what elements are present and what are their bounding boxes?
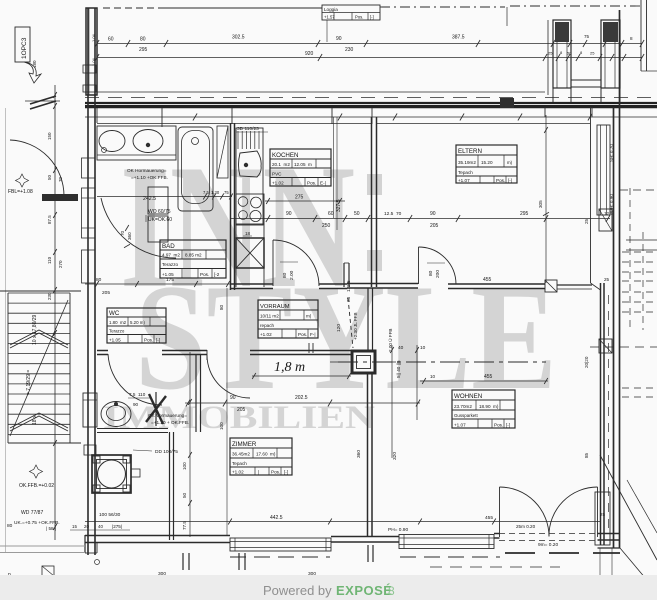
left building wall inner [94, 8, 96, 555]
niche right pier hatch [603, 22, 618, 42]
svg-text:85: 85 [584, 452, 589, 458]
svg-text:OK Vormauerung=: OK Vormauerung= [148, 413, 187, 418]
svg-text:360: 360 [127, 232, 132, 240]
level star B [30, 465, 43, 478]
outside diagonal [600, 455, 657, 560]
top wall jamb hatches [96, 108, 98, 123]
bottom dashed thin [430, 566, 560, 568]
eltern dim 455 [420, 289, 545, 291]
kitchen inner dim verticals [333, 117, 335, 218]
niche bottom wall [571, 79, 601, 81]
svg-text:202.5: 202.5 [295, 395, 308, 401]
svg-text:200: 200 [435, 270, 441, 278]
svg-text:7.5: 7.5 [203, 190, 209, 195]
svg-text:17.60 m): 17.60 m) [256, 452, 276, 457]
french door leaf left [499, 487, 501, 537]
svg-text:18 x: 18 x [32, 415, 38, 425]
bottom right diag 2 [620, 548, 657, 592]
svg-text:Gussparkett: Gussparkett [454, 413, 478, 418]
svg-text:87.5: 87.5 [47, 215, 52, 224]
svg-text:[-]: [-] [506, 423, 510, 428]
svg-text:Pos.: Pos. [144, 338, 153, 343]
top wall notch [500, 98, 514, 108]
stairhall door arc [10, 140, 64, 196]
right wall joint box upper [599, 209, 612, 231]
svg-text:Tepach: Tepach [232, 461, 247, 466]
svg-text:Powered by: Powered by [263, 583, 335, 598]
right wall bottom tick [599, 548, 601, 575]
bottom left corner [84, 535, 86, 553]
wc door arc [108, 354, 162, 405]
left dim chain [54, 85, 56, 540]
svg-text:[-]: [-] [370, 15, 374, 20]
right wall inner face [590, 107, 592, 283]
outside dashed vertical [629, 188, 631, 330]
kitchen drainer hatch [237, 131, 239, 149]
corridor wall mid segment [162, 350, 207, 352]
outside dash cluster a [622, 251, 657, 253]
bath door arc [101, 198, 176, 258]
chimney block [92, 455, 131, 493]
balcony divider stub 2 [238, 553, 240, 570]
svg-text:80: 80 [7, 523, 13, 529]
corridor wall left segment [97, 350, 108, 352]
bottom wall left segment [85, 535, 230, 537]
svg-text:IMMOBILIEN: IMMOBILIEN [103, 400, 375, 436]
level star A [15, 174, 28, 187]
kitchen dim 275 [265, 200, 345, 202]
staircase [7, 293, 9, 443]
bottom dim line [85, 521, 600, 523]
left wall window frame 3 [82, 250, 96, 283]
top dimension chain 1 [97, 43, 642, 45]
svg-text:+1.07: +1.07 [454, 423, 466, 428]
mid wall eltern segment [347, 283, 418, 285]
bath vanity counter [97, 126, 176, 160]
svg-text:455: 455 [483, 277, 492, 283]
svg-text:Pos.: Pos. [307, 181, 316, 186]
kitchen dim line y218 [230, 218, 610, 220]
bottom dashed under windows [230, 556, 330, 558]
svg-text:10/11 m2: 10/11 m2 [260, 314, 279, 319]
corridor wall right segment [250, 350, 352, 352]
svg-text:Pos.: Pos. [298, 332, 307, 337]
svg-text:=+1.20 + OK.FFB.: =+1.20 + OK.FFB. [151, 420, 189, 425]
svg-text:+2.30 JL FFB: +2.30 JL FFB [353, 312, 358, 340]
svg-text:100: 100 [182, 462, 187, 470]
top wall inner line [85, 116, 657, 118]
svg-text:80: 80 [96, 277, 102, 283]
svg-text:| 58 |: | 58 | [46, 526, 56, 531]
svg-text:10: 10 [420, 345, 426, 351]
wall bath-kitchen [230, 123, 232, 290]
svg-text:40: 40 [398, 345, 404, 351]
svg-text:=+1.10 +OK.FFB.: =+1.10 +OK.FFB. [131, 175, 168, 180]
svg-text:F-|: F-| [310, 332, 316, 337]
shaft side walls [235, 224, 237, 238]
entry hatch X [146, 396, 166, 422]
svg-text:25: 25 [584, 218, 589, 224]
ZIMMER label table [230, 438, 292, 475]
niche left pier hatch [555, 22, 569, 42]
svg-text:Pos.: Pos. [496, 178, 505, 183]
VORRAUM label table [258, 300, 318, 338]
svg-text:3D 110/23: 3D 110/23 [237, 126, 259, 132]
svg-text:295: 295 [520, 211, 529, 217]
svg-text:80: 80 [219, 304, 224, 310]
break mark double slash [30, 96, 56, 104]
svg-text:242.5: 242.5 [143, 196, 156, 202]
svg-text:[-2: [-2 [214, 272, 220, 277]
svg-text:25: 25 [604, 277, 610, 282]
svg-text:25m 0.20: 25m 0.20 [516, 524, 536, 529]
svg-text:+1.02: +1.02 [232, 470, 244, 475]
svg-text:SH: 0.70: SH: 0.70 [609, 144, 614, 162]
outside balcony lines [626, 239, 657, 241]
svg-text:18: 18 [245, 231, 251, 236]
zimmer door arc [207, 355, 250, 398]
outside dashes 3 [590, 346, 657, 348]
french door arc left [500, 487, 550, 537]
svg-text:WO 60/75: WO 60/75 [148, 209, 171, 215]
svg-text:15.20: 15.20 [481, 160, 493, 165]
svg-text:110: 110 [47, 256, 52, 264]
svg-text:Terazzo: Terazzo [162, 262, 179, 267]
svg-text:1,8 m: 1,8 m [274, 360, 305, 375]
outside dash cluster b [622, 291, 657, 293]
svg-text:8.85 m2: 8.85 m2 [185, 253, 202, 258]
left wall window frame 2 [82, 188, 96, 238]
svg-text:80: 80 [282, 272, 288, 278]
top dimension chain 2 [97, 57, 642, 59]
svg-text:12.5 70: 12.5 70 [384, 211, 402, 217]
svg-text:50: 50 [47, 174, 52, 180]
svg-text:+1.57: +1.57 [324, 15, 335, 20]
OPC3 label box [15, 27, 30, 62]
outside dash pair c [622, 387, 657, 389]
svg-text:+1.05: +1.05 [109, 338, 121, 343]
right wall outer [613, 107, 615, 548]
svg-text:DD 100/75: DD 100/75 [155, 449, 178, 455]
svg-text:230: 230 [345, 47, 354, 53]
stairhall door stub [42, 194, 78, 201]
svg-text:100: 100 [219, 422, 224, 430]
balcony divider stub 1 [182, 553, 184, 570]
wohnen dim 455 line [420, 380, 548, 382]
WOHNEN label table [452, 390, 515, 428]
svg-text:m): m) [507, 160, 513, 165]
top exterior wall thick [85, 102, 657, 104]
mid wall kitchen segment [230, 283, 273, 285]
svg-text:WC: WC [109, 310, 120, 317]
svg-text:75: 75 [224, 190, 229, 195]
svg-text:WD 77/87: WD 77/87 [21, 510, 43, 516]
loggia floor dashes [85, 97, 657, 99]
left wall mark [84, 445, 96, 455]
svg-text:25: 25 [590, 51, 595, 56]
bath basin 1 [99, 131, 125, 152]
wohnen window box bottom [595, 492, 610, 545]
svg-text:8: 8 [388, 584, 395, 598]
chimney side tab [131, 469, 140, 477]
svg-text:20: 20 [84, 524, 89, 529]
niche left pier [553, 20, 571, 88]
bath basin 2 [133, 130, 163, 153]
svg-text:305: 305 [538, 200, 543, 208]
svg-text:77.5: 77.5 [182, 521, 187, 530]
bottom wall mid segment [331, 536, 399, 538]
svg-text:ELTERN: ELTERN [458, 148, 482, 155]
svg-text:75: 75 [584, 34, 590, 39]
corridor right wall [367, 288, 369, 352]
mid wall junction box [545, 280, 557, 292]
svg-text:25: 25 [600, 512, 605, 517]
svg-text:150: 150 [47, 132, 52, 140]
svg-text:250: 250 [322, 223, 331, 229]
svg-text:|: | [258, 470, 259, 475]
right wall window eltern [597, 125, 610, 215]
top wall sill line [97, 123, 372, 125]
svg-text:442.5: 442.5 [270, 515, 283, 521]
window sill box 2 [399, 535, 494, 549]
svg-text:Loggia: Loggia [324, 7, 338, 12]
svg-text:36.45m2: 36.45m2 [232, 452, 250, 457]
svg-text:295: 295 [139, 47, 148, 53]
svg-text:205: 205 [430, 223, 439, 229]
svg-text:175: 175 [166, 277, 174, 283]
vorraum jamb marks [308, 343, 310, 353]
left loggia pillar [86, 8, 97, 95]
ELTERN label table [456, 145, 517, 183]
svg-text:4.97 m2: 4.97 m2 [162, 253, 180, 258]
svg-text:Pos.: Pos. [494, 423, 503, 428]
svg-text:Pos.: Pos. [271, 470, 280, 475]
scan page border left [5, 108, 7, 553]
svg-text:120: 120 [336, 324, 342, 332]
svg-text:302.5: 302.5 [232, 35, 245, 41]
svg-text:100 56/30: 100 56/30 [99, 512, 121, 518]
wc area dim line [85, 283, 230, 285]
bottom right corner wall [598, 533, 621, 535]
outside dashes 1 [620, 189, 657, 191]
shaft square wohnen [352, 351, 375, 373]
svg-text:15: 15 [72, 524, 77, 529]
svg-text:12.05 m: 12.05 m [294, 162, 312, 167]
left wall window frame 1 [82, 158, 96, 178]
svg-text:repach: repach [260, 323, 274, 328]
shower panel [217, 126, 228, 178]
loggia top dashed line [103, 7, 160, 9]
left building wall outer [87, 8, 89, 555]
svg-text:5|| 40 ||5: 5|| 40 ||5 [396, 360, 401, 378]
top right edge lines [640, 0, 642, 71]
bathtub [178, 127, 213, 211]
svg-text:Pos.: Pos. [200, 272, 209, 277]
svg-text:90: 90 [133, 402, 139, 407]
svg-text:360: 360 [356, 450, 362, 458]
kitchen sink [239, 151, 262, 177]
bottom wall stub before door [494, 533, 500, 535]
svg-text:ZIMMER: ZIMMER [232, 441, 257, 448]
wall wc-zimmer [169, 432, 171, 540]
wall zimmer-wohnen [367, 372, 369, 537]
svg-text:+1.07: +1.07 [458, 178, 470, 183]
svg-text:7.5 110: 7.5 110 [129, 392, 146, 397]
niche pier extensions [552, 88, 554, 103]
svg-text:60: 60 [328, 211, 334, 217]
svg-text:8: 8 [630, 36, 633, 41]
WC label table [107, 308, 166, 343]
svg-text:OK Hormauerung=: OK Hormauerung= [127, 168, 167, 173]
watermark row1 colon dot bottom [367, 250, 382, 271]
kitchen cooktop [236, 194, 264, 224]
svg-text:920: 920 [305, 51, 314, 57]
right wall joint box lower [599, 339, 612, 353]
svg-text:BAD: BAD [162, 243, 175, 250]
svg-text:Pos.: Pos. [355, 15, 363, 20]
svg-text:+1.02: +1.02 [260, 332, 272, 337]
wc right wall [195, 354, 197, 432]
svg-text:28: 28 [346, 296, 351, 302]
svg-text:20.1 m2: 20.1 m2 [272, 162, 290, 167]
svg-text:80: 80 [428, 270, 434, 276]
kitchen door arc [273, 240, 319, 286]
svg-text:OK.FFB.=+0.02: OK.FFB.=+0.02 [19, 483, 54, 489]
mid wall right of door [448, 283, 545, 285]
svg-text:50: 50 [182, 492, 187, 498]
zimmer dim vertical a [189, 352, 191, 537]
svg-text:= 7.19/29 =: = 7.19/29 = [26, 370, 32, 395]
svg-text:m|: m| [306, 314, 311, 319]
svg-text:270: 270 [58, 260, 63, 268]
corridor 1.8m dim line [252, 375, 351, 377]
svg-text:VORRAUM: VORRAUM [260, 304, 290, 310]
french door leaf right [597, 487, 599, 537]
svg-text:387.5: 387.5 [452, 35, 465, 41]
kitchen door leaf [272, 240, 274, 286]
eltern interior dim line [545, 115, 547, 283]
svg-text:10 x 17,80/29: 10 x 17,80/29 [32, 314, 38, 345]
svg-text:23.70m2: 23.70m2 [454, 404, 472, 409]
svg-text:20|20: 20|20 [584, 356, 589, 368]
svg-text:FBL=+1.08: FBL=+1.08 [8, 189, 33, 195]
svg-text:50: 50 [354, 211, 360, 217]
svg-text:1.30: 1.30 [211, 190, 220, 195]
watermark row1 colon dot top [367, 174, 382, 195]
svg-text:205: 205 [102, 290, 110, 296]
svg-text:PVC: PVC [272, 172, 282, 177]
svg-text:1.80 m2: 1.80 m2 [109, 320, 127, 325]
corridor stub wall [343, 263, 345, 287]
loggia floor line [97, 91, 545, 93]
svg-text:80: 80 [140, 37, 146, 43]
svg-text:275: 275 [295, 195, 304, 201]
window sill box 1 [230, 538, 331, 551]
svg-text:+1.05: +1.05 [162, 272, 174, 277]
top dash-dot line right [380, 6, 505, 8]
eltern door arc [419, 247, 457, 285]
wohnen right wall inner [600, 283, 602, 545]
svg-text:|275|: |275| [112, 524, 122, 529]
small circle bottom [95, 560, 100, 565]
loggia label table [322, 5, 380, 20]
svg-text:WOHNEN: WOHNEN [454, 393, 482, 400]
loggia label leader [326, 20, 328, 42]
footer bar [0, 575, 657, 600]
svg-text:2.00: 2.00 [289, 270, 295, 280]
curved arrow symbol [24, 62, 41, 83]
left wall box b [83, 85, 96, 92]
kitchen counter [236, 128, 263, 225]
bath small dim line [97, 196, 232, 198]
niche left face [547, 20, 549, 95]
svg-text:35.19m2: 35.19m2 [458, 160, 476, 165]
mid wall to right wall [557, 284, 592, 286]
svg-text:+1.02: +1.02 [272, 181, 284, 186]
svg-text:90: 90 [230, 395, 236, 401]
shaft with X [236, 238, 264, 268]
top wall tick marks [193, 114, 197, 121]
svg-text:[-]: [-] [284, 470, 288, 475]
niche right pier [601, 20, 620, 88]
svg-text:90: 90 [336, 36, 342, 42]
svg-text:UK=OK.60: UK=OK.60 [148, 217, 172, 223]
zimmer dim vertical b [226, 288, 228, 535]
svg-text:[-]: [-] [156, 338, 160, 343]
wohnen dashdot line [338, 361, 546, 363]
wall kitchen-eltern [371, 117, 373, 287]
svg-text:EXPOSÉ: EXPOSÉ [336, 583, 392, 598]
KOCHEN label table [270, 149, 331, 186]
corridor dim line [185, 402, 420, 404]
balcony divider stub 3 [367, 545, 369, 562]
svg-text:90: 90 [286, 211, 292, 217]
svg-text:Terazzo: Terazzo [109, 329, 125, 334]
svg-text:320: 320 [392, 452, 398, 460]
svg-text:60: 60 [108, 37, 114, 43]
svg-text:5.20 m): 5.20 m) [130, 320, 145, 325]
wc toilet [101, 402, 131, 427]
svg-text:18.90 m): 18.90 m) [479, 404, 499, 409]
BAD label table [160, 240, 226, 278]
left wall entry door frame [83, 393, 97, 427]
vormauerung block 2 [148, 216, 168, 242]
svg-text:1OPC3: 1OPC3 [21, 37, 28, 59]
svg-text:40: 40 [98, 524, 103, 529]
wc bottom wall [97, 428, 168, 430]
left wall box a [83, 65, 96, 73]
svg-text:455: 455 [484, 374, 493, 380]
diag dashed passage [348, 298, 353, 348]
svg-text:Tepach: Tepach [458, 170, 473, 175]
svg-text:KOCHEN: KOCHEN [272, 152, 298, 159]
french door arc right [549, 487, 598, 537]
eltern door leaf [418, 247, 420, 284]
svg-text:9m= 0.20: 9m= 0.20 [538, 542, 558, 548]
svg-text:10: 10 [430, 374, 436, 379]
svg-text:E-|: E-| [320, 181, 326, 186]
svg-text:205: 205 [237, 407, 246, 413]
sidewalk lines left [0, 545, 85, 547]
svg-text:90: 90 [430, 211, 436, 217]
wohnen right wall dash center [608, 295, 610, 528]
vormauerung block 1 [148, 187, 168, 214]
svg-text:70: 70 [120, 230, 125, 236]
svg-text:[-]: [-] [508, 178, 512, 183]
svg-text:PH= 0.90: PH= 0.90 [388, 527, 408, 533]
wohnen dim verticals [391, 345, 393, 458]
french door threshold dashes [499, 533, 598, 535]
